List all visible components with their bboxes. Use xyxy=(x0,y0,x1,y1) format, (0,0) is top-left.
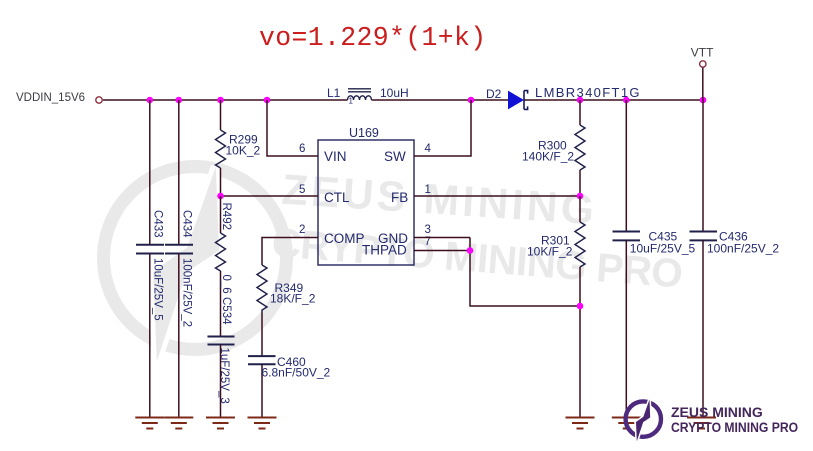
svg-text:ZEUS MINING: ZEUS MINING xyxy=(671,404,763,420)
resistor R301 xyxy=(579,196,581,222)
svg-text:0_6: 0_6 xyxy=(220,275,232,294)
svg-text:THPAD: THPAD xyxy=(362,243,407,258)
svg-text:CRYPTO MINING PRO: CRYPTO MINING PRO xyxy=(671,419,798,435)
wire VTT xyxy=(702,68,704,101)
junction THPAD xyxy=(467,247,474,254)
svg-text:10K_2: 10K_2 xyxy=(226,144,261,158)
svg-text:R492: R492 xyxy=(220,203,232,231)
svg-text:10uF/25V_5: 10uF/25V_5 xyxy=(151,258,163,321)
svg-text:VIN: VIN xyxy=(324,149,347,164)
wire CTL xyxy=(221,195,319,197)
zeus mining footer logo xyxy=(626,400,661,442)
wire rail L1 to D2 xyxy=(372,99,509,101)
svg-text:2: 2 xyxy=(299,224,305,236)
svg-text:10K/F_2: 10K/F_2 xyxy=(527,245,573,259)
ground C435 xyxy=(612,418,641,429)
svg-text:6.8nF/50V_2: 6.8nF/50V_2 xyxy=(262,365,331,379)
junction SW node xyxy=(468,97,475,104)
svg-text:CTL: CTL xyxy=(324,190,350,205)
svg-text:U169: U169 xyxy=(349,126,379,140)
watermark logo (large faint) xyxy=(104,167,287,362)
svg-text:C433: C433 xyxy=(151,210,163,238)
svg-text:1: 1 xyxy=(349,97,354,106)
junction CTL/R492 xyxy=(217,193,224,200)
svg-text:C534: C534 xyxy=(220,297,232,325)
wire main rail left xyxy=(103,99,348,101)
ground C534 xyxy=(206,418,235,429)
svg-text:6: 6 xyxy=(299,143,305,155)
junction VTT corner xyxy=(700,97,707,104)
junction C435 tap xyxy=(623,97,630,104)
terminal VTT xyxy=(700,61,706,67)
capacitor C460 xyxy=(248,355,276,357)
svg-text:18K/F_2: 18K/F_2 xyxy=(270,292,316,306)
svg-text:4: 4 xyxy=(425,143,432,155)
wire rail D2 to VTT corner xyxy=(524,99,703,101)
wire GND down xyxy=(470,238,580,307)
ground C460 xyxy=(248,418,277,429)
junction R301 bottom xyxy=(577,303,584,310)
junction VIN tap xyxy=(264,97,271,104)
ground C436 xyxy=(687,418,716,429)
capacitor C433 xyxy=(149,100,151,244)
inductor L1 xyxy=(348,89,372,100)
IC U169 box xyxy=(318,140,414,265)
svg-text:10uH: 10uH xyxy=(380,86,409,100)
svg-text:SW: SW xyxy=(384,149,406,164)
ground R301 xyxy=(566,418,595,429)
svg-text:100nF/25V_2: 100nF/25V_2 xyxy=(180,258,192,327)
wire VIN branch xyxy=(267,100,318,156)
junction C434 tap xyxy=(176,97,183,104)
junction R300 tap xyxy=(577,97,584,104)
svg-text:C434: C434 xyxy=(180,210,192,238)
junction FB node xyxy=(577,193,584,200)
wire THPAD pin7 xyxy=(414,250,470,252)
capacitor C436 xyxy=(702,100,704,232)
resistor R299 xyxy=(220,100,222,130)
junction R299 tap xyxy=(217,97,224,104)
wire COMP xyxy=(262,238,318,266)
wire FB xyxy=(414,195,580,197)
svg-text:FB: FB xyxy=(391,190,408,205)
svg-text:3: 3 xyxy=(425,224,431,236)
capacitor C435 xyxy=(625,100,627,232)
resistor R300 xyxy=(579,100,581,125)
svg-text:VDDIN_15V6: VDDIN_15V6 xyxy=(16,92,85,104)
svg-text:COMP: COMP xyxy=(324,231,365,246)
ground C433 xyxy=(135,418,164,429)
svg-text:5: 5 xyxy=(299,184,305,196)
wire GND pin3 xyxy=(414,237,470,239)
capacitor C434 xyxy=(178,100,180,244)
svg-text:1: 1 xyxy=(425,184,431,196)
resistor R349 xyxy=(257,265,267,313)
ground C434 xyxy=(164,418,193,429)
svg-text:140K/F_2: 140K/F_2 xyxy=(522,150,574,164)
svg-text:100nF/25V_2: 100nF/25V_2 xyxy=(707,242,779,256)
terminal VDDIN_15V6 xyxy=(96,97,102,103)
wires around IC xyxy=(221,100,581,306)
svg-text:L1: L1 xyxy=(327,86,341,100)
wire SW branch xyxy=(414,100,471,156)
svg-text:vo=1.229*(1+k): vo=1.229*(1+k) xyxy=(259,23,487,53)
junction C433 tap xyxy=(147,97,154,104)
svg-text:VTT: VTT xyxy=(691,46,714,60)
svg-text:10uF/25V_5: 10uF/25V_5 xyxy=(630,242,696,256)
grounds xyxy=(135,418,716,429)
svg-text:D2: D2 xyxy=(486,87,502,101)
